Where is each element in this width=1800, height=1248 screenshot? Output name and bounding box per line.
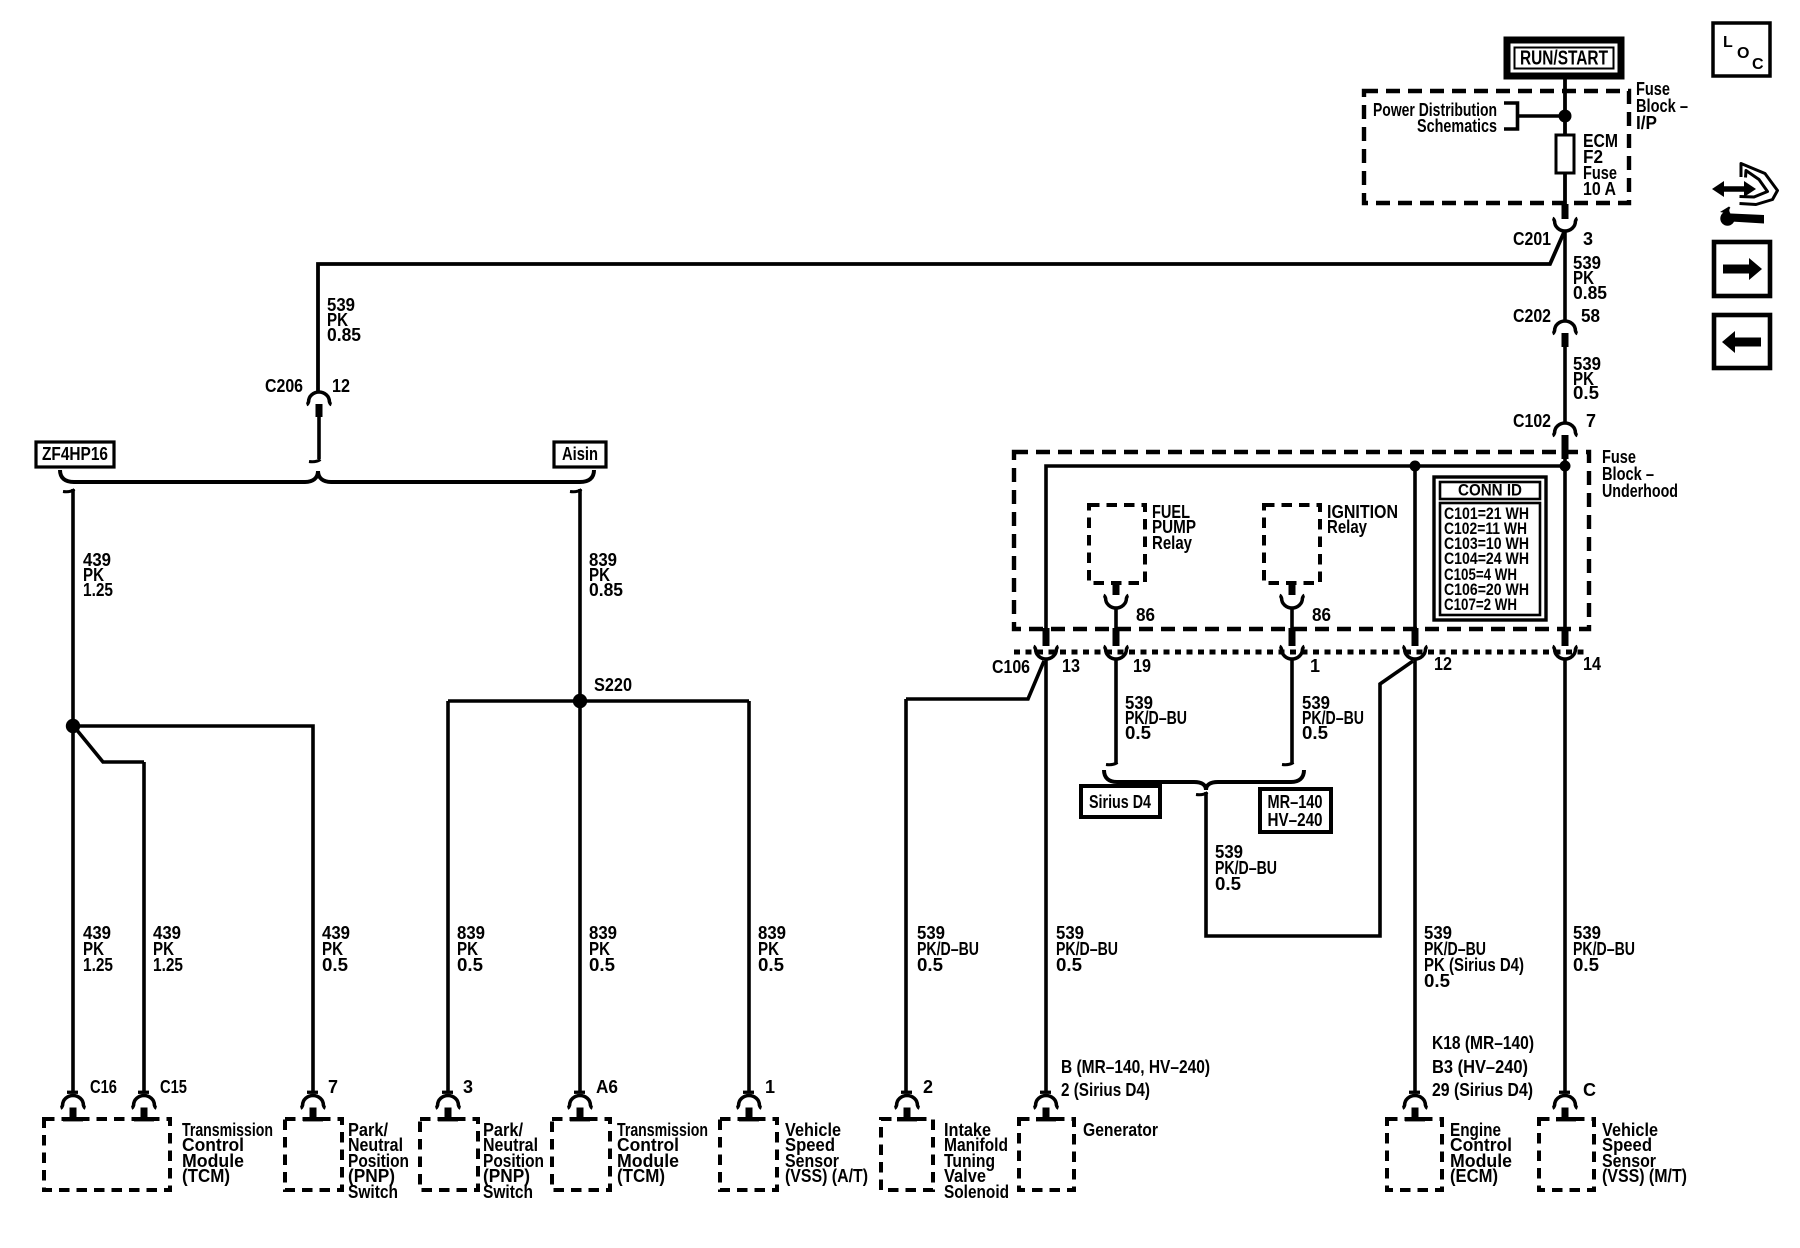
svg-text:3: 3 [1583, 229, 1593, 249]
svg-text:S220: S220 [594, 675, 632, 695]
wire pin 13 to Generator [1044, 658, 1048, 1092]
svg-text:0.5: 0.5 [1125, 723, 1151, 743]
svg-text:O: O [1737, 45, 1749, 62]
svg-text:13: 13 [1062, 656, 1080, 676]
junction dot bus to pin 12 [1410, 461, 1421, 472]
svg-text:0.5: 0.5 [1573, 955, 1599, 975]
svg-text:29 (Sirius D4): 29 (Sirius D4) [1432, 1080, 1533, 1100]
svg-text:(VSS) (M/T): (VSS) (M/T) [1602, 1166, 1687, 1186]
connector pin 1 [1280, 628, 1320, 676]
svg-text:K18 (MR–140): K18 (MR–140) [1432, 1033, 1534, 1053]
node Power Distribution Schematics reference [1373, 100, 1518, 136]
connector ECM pins K18/B3/29 [1403, 1033, 1534, 1119]
connector pin 14 [1553, 628, 1601, 674]
wire relay 86 to pin 1 [1290, 607, 1294, 630]
svg-text:ZF4HP16: ZF4HP16 [42, 444, 108, 464]
svg-text:C206: C206 [265, 376, 303, 396]
svg-text:86: 86 [1312, 605, 1331, 625]
svg-text:C202: C202 [1513, 306, 1551, 326]
connector C206 pin 12 [265, 376, 350, 417]
svg-text:C16: C16 [90, 1077, 117, 1097]
svg-text:C102: C102 [1513, 411, 1551, 431]
svg-text:MR–140: MR–140 [1268, 792, 1323, 812]
wire label 539 PK/D-BU 0.5 (pin 19) [1125, 693, 1187, 743]
node service tools icon [1712, 164, 1778, 226]
wire label 439 PK 1.25 (C15) [153, 923, 183, 975]
wire relay 86 to pin 19 [1114, 607, 1118, 630]
connector Intake solenoid pin 2 [895, 1077, 933, 1119]
connector pin 12 [1403, 628, 1452, 674]
svg-text:(TCM): (TCM) [182, 1166, 230, 1186]
wire C201 branch to left tree and down [318, 230, 1565, 393]
component Park/Neutral Position Switch box 2 [420, 1117, 544, 1202]
svg-text:0.5: 0.5 [322, 955, 348, 975]
wire fuse to box edge [1563, 173, 1567, 204]
connector TCM pin C15 [132, 1077, 187, 1119]
wire RUN/START to Fuse Block I/P [1563, 76, 1567, 135]
svg-text:Underhood: Underhood [1602, 481, 1678, 501]
svg-text:RUN/START: RUN/START [1520, 48, 1608, 70]
svg-text:Relay: Relay [1327, 517, 1367, 537]
wire label 539 PK/D-BU PK (Sirius D4) 0.5 (ECM) [1424, 923, 1524, 991]
svg-text:0.85: 0.85 [327, 325, 361, 345]
svg-text:C15: C15 [160, 1077, 187, 1097]
wire Aisin branch 839 PK 0.85 [570, 490, 582, 492]
svg-text:86: 86 [1136, 605, 1155, 625]
wire label 539 PK 0.85 left [327, 295, 361, 345]
node Fuse Block - Underhood label [1602, 447, 1678, 501]
node MR-140 HV-240 option box [1260, 789, 1331, 832]
wire label 539 PK/D-BU 0.5 (brace output) [1215, 842, 1277, 894]
svg-text:(ECM): (ECM) [1450, 1166, 1498, 1186]
svg-text:0.5: 0.5 [589, 955, 615, 975]
relay FUEL PUMP dashed box [1089, 502, 1196, 583]
relay IGNITION dashed box [1264, 502, 1398, 583]
svg-text:0.5: 0.5 [1215, 874, 1241, 894]
svg-text:1.25: 1.25 [83, 580, 113, 600]
wire S220 to PNP pin 3 [446, 701, 450, 1092]
connector pin 19 [1104, 628, 1151, 676]
junction dot bus at C102 entry [1560, 461, 1571, 472]
node back arrow icon [1714, 315, 1770, 368]
svg-text:7: 7 [1586, 411, 1596, 431]
svg-text:1.25: 1.25 [153, 955, 183, 975]
component Transmission Control Module (TCM) box 2 [552, 1117, 708, 1190]
connector VSS A/T pin 1 [737, 1077, 775, 1119]
svg-text:C: C [1752, 56, 1764, 73]
wire fuse block internal bus [1046, 466, 1565, 630]
svg-text:Sirius D4: Sirius D4 [1089, 792, 1151, 812]
wire label 439 PK 0.5 (pin 7) [322, 923, 350, 975]
connector PNP pin 7 [301, 1077, 338, 1119]
svg-text:7: 7 [328, 1077, 338, 1097]
connector TCM pin C16 [61, 1077, 117, 1119]
wire pin 12 to ECM [1413, 658, 1417, 1092]
svg-text:3: 3 [463, 1077, 473, 1097]
component Generator box [1019, 1117, 1158, 1190]
component Park/Neutral Position Switch box 1 [285, 1117, 409, 1202]
node option brace pins 19 and 1 [1104, 770, 1304, 790]
svg-text:1: 1 [765, 1077, 775, 1097]
wire junction to PNP pin 7 [73, 726, 313, 1092]
svg-text:C201: C201 [1513, 229, 1551, 249]
wire C102 into fuse block underhood [1563, 455, 1567, 466]
node option brace ZF4HP16 / Aisin [60, 470, 594, 482]
svg-text:0.5: 0.5 [1424, 971, 1450, 991]
wire Power Distribution tap [1518, 114, 1566, 118]
svg-text:0.5: 0.5 [758, 955, 784, 975]
wire pin 1 down to brace [1290, 658, 1294, 764]
svg-text:CONN ID: CONN ID [1458, 481, 1522, 500]
svg-text:0.5: 0.5 [1056, 955, 1082, 975]
connector row C106 dotted line [1014, 650, 1589, 655]
component Intake Manifold Tuning Valve Solenoid box [881, 1117, 1009, 1202]
node CONN ID table [1434, 477, 1546, 620]
svg-text:0.5: 0.5 [917, 955, 943, 975]
wire label 439 PK 1.25 (C16) [83, 923, 113, 975]
fuse block I/P dashed box [1364, 91, 1629, 203]
svg-text:1.25: 1.25 [83, 955, 113, 975]
node ZF4HP16 label box [36, 442, 114, 467]
wire pin 14 to VSS M/T [1563, 658, 1567, 1092]
svg-text:Switch: Switch [483, 1182, 533, 1202]
connector C201 pin 3 [1513, 204, 1593, 249]
wire label 539 PK 0.85 [1573, 253, 1607, 303]
wire label 539 PK/D-BU 0.5 (VSS M/T) [1573, 923, 1635, 975]
svg-text:Solenoid: Solenoid [944, 1182, 1009, 1202]
node LOC legend icon [1713, 23, 1770, 76]
component Transmission Control Module (TCM) box 1 [44, 1117, 273, 1190]
svg-text:19: 19 [1133, 656, 1151, 676]
svg-text:Aisin: Aisin [562, 444, 598, 464]
svg-text:0.85: 0.85 [589, 580, 623, 600]
svg-text:C: C [1583, 1080, 1596, 1100]
node Fuse Block - I/P label [1636, 79, 1688, 133]
wire label 839 PK 0.5 (pin 3) [457, 923, 485, 975]
svg-text:I/P: I/P [1636, 113, 1657, 133]
wire label 839 PK 0.5 (pin 1) [758, 923, 786, 975]
fuse block underhood dashed box [1014, 452, 1589, 629]
wire S220 bus [448, 699, 749, 703]
svg-text:A6: A6 [596, 1077, 618, 1097]
splice S220 [573, 694, 587, 708]
wire S220 to TCM A6 [578, 701, 582, 1092]
svg-text:HV–240: HV–240 [1268, 810, 1323, 830]
svg-text:Relay: Relay [1152, 533, 1192, 553]
svg-text:0.5: 0.5 [457, 955, 483, 975]
component Vehicle Speed Sensor (VSS) (A/T) box [720, 1117, 868, 1190]
junction dot TCM branch [66, 719, 80, 733]
connector fuel pump relay pin 86 [1104, 583, 1155, 625]
svg-text:Schematics: Schematics [1417, 116, 1497, 136]
wire C206 to brace [317, 417, 321, 459]
node Sirius D4 option box [1081, 786, 1160, 817]
svg-text:1: 1 [1310, 656, 1320, 676]
fuse ECM F2 10A [1556, 131, 1618, 199]
wire label 539 PK/D-BU 0.5 (generator) [1056, 923, 1118, 975]
svg-text:C106: C106 [992, 657, 1030, 677]
connector ignition relay pin 86 [1280, 583, 1331, 625]
svg-text:Switch: Switch [348, 1182, 398, 1202]
connector C102 pin 7 [1513, 411, 1596, 459]
svg-text:C107=2 WH: C107=2 WH [1444, 595, 1517, 614]
connector C106 pin 13 [992, 628, 1080, 677]
component Engine Control Module (ECM) box [1387, 1117, 1512, 1190]
connector PNP pin 3 [436, 1077, 473, 1119]
connector C202 pin 58 [1513, 306, 1600, 347]
wire label 839 PK 0.5 (A6) [589, 923, 617, 975]
wire label 539 PK/D-BU 0.5 (pin 1) [1302, 693, 1364, 743]
component Vehicle Speed Sensor (VSS) (M/T) box [1539, 1117, 1687, 1190]
node RUN/START battery feed box [1507, 40, 1621, 76]
wire brace to pin 12 branch [1196, 793, 1208, 795]
wire pin 19 down to brace [1114, 658, 1118, 764]
wire label 539 PK 0.5 [1573, 354, 1601, 403]
svg-text:B (MR–140, HV–240): B (MR–140, HV–240) [1061, 1057, 1210, 1077]
svg-text:0.5: 0.5 [1302, 723, 1328, 743]
svg-text:10 A: 10 A [1583, 179, 1616, 199]
node Aisin label box [554, 442, 606, 467]
svg-text:12: 12 [1434, 654, 1452, 674]
node forward arrow icon [1714, 242, 1770, 296]
svg-text:(VSS) (A/T): (VSS) (A/T) [785, 1166, 868, 1186]
wire C202 to C102 [1563, 347, 1567, 424]
wire label 539 PK/D-BU 0.5 (intake) [917, 923, 979, 975]
svg-text:0.85: 0.85 [1573, 283, 1607, 303]
connector VSS M/T pin C [1553, 1080, 1596, 1119]
wire junction to TCM C15 [76, 729, 144, 1092]
connector Generator pin 2 / B [1034, 1057, 1210, 1119]
junction dot at fuse feed [1559, 110, 1572, 123]
svg-text:12: 12 [332, 376, 350, 396]
wire S220 to VSS pin 1 [747, 701, 751, 1092]
svg-text:L: L [1723, 34, 1733, 51]
svg-text:2: 2 [923, 1077, 933, 1097]
svg-text:14: 14 [1583, 654, 1601, 674]
connector TCM pin A6 [568, 1077, 618, 1119]
svg-text:58: 58 [1581, 306, 1600, 326]
wire ZF4HP16 branch 439 PK 1.25 [63, 490, 75, 492]
svg-text:Generator: Generator [1083, 1120, 1158, 1140]
svg-text:B3 (HV–240): B3 (HV–240) [1432, 1057, 1528, 1077]
svg-text:(TCM): (TCM) [617, 1166, 665, 1186]
svg-text:0.5: 0.5 [1573, 383, 1599, 403]
wire pin 13 branch to Intake solenoid [906, 661, 1044, 1092]
svg-text:2 (Sirius D4): 2 (Sirius D4) [1061, 1080, 1150, 1100]
